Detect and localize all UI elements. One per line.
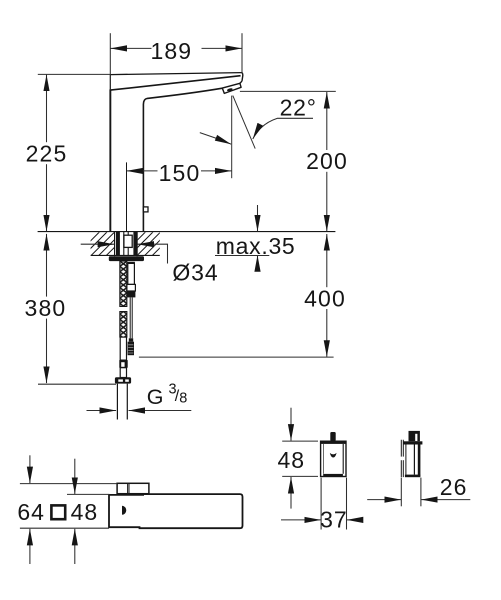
dim 380 bottom extension [38, 383, 116, 385]
faucet left edge lower [109, 89, 111, 231]
dim 380 line+arrows [46, 234, 48, 297]
aerator reference vertical line [231, 96, 233, 179]
box2 right wall [418, 444, 421, 476]
G3/8 pipe [117, 384, 127, 420]
svg-text:400: 400 [304, 286, 346, 312]
hose below nut [120, 368, 126, 378]
mounting block [117, 483, 149, 493]
square symbol [51, 505, 65, 519]
flange under counter [109, 256, 144, 261]
svg-text:26: 26 [440, 474, 468, 500]
shank through counter [115, 232, 138, 257]
hose smooth tube [120, 337, 126, 360]
deck line [38, 231, 336, 233]
box bottom bar [323, 474, 343, 477]
svg-text:150: 150 [159, 160, 201, 186]
faucet left edge upper [109, 75, 111, 91]
braided hose upper segment [120, 261, 127, 306]
block divider [128, 483, 129, 493]
dim 200 line+arrows [326, 92, 328, 150]
svg-text:G: G [147, 385, 164, 409]
svg-text:37: 37 [320, 507, 348, 533]
dim 48 extension lines [281, 408, 363, 530]
hose nut [119, 360, 127, 368]
faucet underside and inner edge [143, 88, 222, 231]
dim 48 arrows [74, 459, 76, 494]
block heavy base [129, 493, 144, 495]
faucet top back edge [110, 73, 241, 75]
svg-text:8: 8 [179, 390, 187, 406]
box2 top bar [403, 441, 422, 444]
faucet tip edge [240, 73, 243, 84]
box outline [321, 441, 346, 476]
svg-text:48: 48 [71, 499, 99, 525]
spout body [109, 494, 243, 528]
svg-text:225: 225 [26, 140, 68, 166]
box2 bottom bar [405, 475, 421, 478]
counter hatch right [122, 232, 176, 255]
valve tube beside hose [127, 262, 135, 264]
box2 nipple [409, 431, 420, 441]
aerator block [222, 83, 241, 93]
dim 26 extension lines [367, 478, 470, 507]
counter bottom line [91, 254, 160, 256]
svg-text:48: 48 [278, 447, 306, 473]
box2 left wall [401, 440, 403, 477]
dim 225 extension line top [38, 73, 111, 75]
dim 400 line+arrows [326, 234, 328, 287]
svg-text:64: 64 [17, 499, 45, 525]
cable plug [129, 338, 133, 341]
sensor cable [130, 298, 132, 339]
faucet top front edge [110, 76, 240, 90]
angle arc arrow right (leader from 22deg) [253, 118, 313, 139]
dim 64/48 extension lines [20, 455, 117, 564]
svg-text:Ø34: Ø34 [172, 259, 218, 285]
dim 150 line+arrows [127, 170, 158, 172]
max35 underline [215, 255, 269, 257]
dim 225 line+arrows [46, 75, 48, 143]
svg-text:22°: 22° [280, 94, 317, 120]
angle arc arrow left [200, 133, 231, 145]
svg-text:max.35: max.35 [216, 233, 296, 259]
dim G38 arrows [87, 410, 117, 412]
spray direction line 22deg [233, 96, 255, 149]
dim 189 arrows [110, 47, 151, 49]
aerator level line to 200 [240, 90, 336, 92]
dim 400 bottom extension [139, 356, 334, 358]
svg-text:380: 380 [25, 295, 67, 321]
dim max35 arrows [257, 205, 259, 231]
box top bar [321, 441, 346, 444]
counter hatch left [76, 232, 137, 255]
box inner walls [323, 444, 325, 474]
box2 inner lines [405, 445, 407, 475]
svg-text:200: 200 [306, 148, 348, 174]
sensor window [122, 506, 126, 515]
braided hose lower segment [120, 312, 127, 338]
aerator outlet ellipse [227, 88, 233, 92]
dim 64 arrows [29, 455, 31, 483]
dim 37 extension lines [320, 478, 322, 530]
box logo mark [330, 453, 337, 458]
faucet centerline [126, 162, 128, 231]
svg-text:189: 189 [150, 38, 192, 64]
box2 left wall notch [400, 457, 404, 461]
end fitting [115, 377, 131, 383]
side tab on faucet shaft [143, 207, 148, 212]
dim O34 leader [81, 243, 115, 245]
box nipple [330, 432, 335, 441]
dim 189 extension lines [109, 33, 111, 90]
